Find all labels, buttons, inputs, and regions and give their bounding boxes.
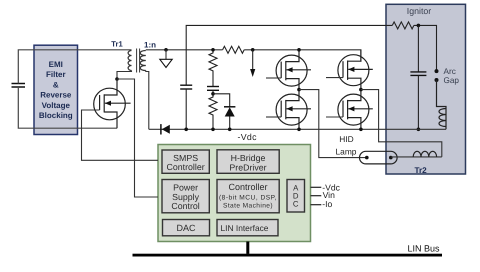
svg-text:Ignitor: Ignitor — [407, 6, 432, 16]
lamp electrode left — [365, 156, 369, 160]
capacitor C3 (snubber) — [207, 87, 219, 91]
current direction arrow — [250, 50, 255, 77]
zener diode D2 — [224, 107, 235, 117]
wire secondary top rail (left part) — [146, 49, 223, 51]
svg-text:Arc: Arc — [444, 67, 456, 76]
svg-text:HID: HID — [339, 134, 353, 144]
svg-text:(8-bit MCU, DSP,: (8-bit MCU, DSP, — [219, 195, 277, 202]
svg-text:C: C — [293, 200, 299, 209]
svg-text:Controller: Controller — [167, 162, 205, 172]
capacitor C2 (ignitor) — [410, 72, 426, 76]
LIN Interface block — [217, 220, 278, 236]
wire Q1 gate to SMPS Controller — [82, 110, 159, 160]
wire C4 bottom to rail — [185, 89, 187, 129]
transistor Q4 (H-bridge bottom-left) — [266, 90, 311, 130]
arc gap electrode top — [435, 69, 439, 73]
junction ignitor RC node — [417, 24, 421, 28]
junction Q2 drain on rail — [297, 48, 301, 52]
wire LIN Interface to bus — [246, 242, 249, 254]
svg-text:Control: Control — [171, 201, 199, 211]
arc gap electrode bottom — [435, 78, 439, 82]
DAC block — [163, 220, 210, 236]
capacitor C4 (bus filter) — [180, 85, 192, 89]
transistor Q2 (H-bridge top-left) — [266, 50, 311, 90]
H-Bridge PreDriver block — [217, 150, 279, 174]
junction Q4 source on rail — [297, 128, 301, 132]
wire snubber mid to zener — [213, 94, 230, 107]
node A junction — [297, 88, 301, 92]
diode D1 (rectifier) — [161, 124, 170, 134]
wire node A to lamp left electrode — [299, 90, 367, 158]
resistor R4 (snubber) — [209, 91, 217, 130]
Power Supply Control block — [162, 180, 209, 213]
junction switching node — [115, 77, 119, 81]
Controller block — [217, 180, 279, 213]
wire bus capacitor top — [185, 50, 187, 85]
wire RC node down — [417, 25, 419, 71]
ignitor module box — [386, 4, 466, 174]
svg-text:Blocking: Blocking — [39, 111, 73, 120]
wire D2 to rail — [229, 117, 231, 130]
resistor R1 — [223, 46, 245, 53]
resistor R3 (snubber) — [209, 50, 217, 86]
wire branch rail to ignitor — [186, 25, 392, 49]
EMI filter block — [34, 45, 78, 134]
resistor R2 (ignitor charging) — [392, 22, 414, 29]
LIN bus line — [133, 254, 443, 257]
wire -Vdc rail — [149, 128, 446, 130]
wire ADC input -Vdc stub — [311, 186, 322, 188]
wire Tr1 primary bottom to switching node — [117, 71, 132, 80]
svg-text:&: & — [53, 80, 59, 89]
svg-text:Tr2: Tr2 — [414, 166, 427, 175]
transformer Tr2 primary winding — [413, 151, 436, 157]
junction C4 on rail — [184, 128, 188, 132]
wire R2 to arc gap top — [414, 25, 437, 71]
wire C1 bottom across EMI block to Q1 source — [18, 87, 117, 128]
node B junction — [359, 88, 363, 92]
junction D2 on rail — [228, 128, 232, 132]
wire lamp right electrode to Tr2 primary — [391, 156, 442, 158]
svg-text:LIN Interface: LIN Interface — [221, 223, 269, 233]
wire ADC input Vin stub — [311, 195, 322, 197]
junction C2 on rail — [417, 128, 421, 132]
wire node B to Tr2 primary right end — [361, 90, 442, 157]
svg-text:Tr1: Tr1 — [111, 40, 123, 49]
svg-text:PreDriver: PreDriver — [229, 162, 266, 172]
HID lamp envelope — [360, 151, 398, 164]
capacitor C1 (input filter) — [12, 84, 26, 88]
junction snubber top — [211, 48, 215, 52]
junction Q5 source on rail — [359, 128, 363, 132]
svg-text:Reverse: Reverse — [40, 91, 72, 100]
svg-text:EMI: EMI — [49, 60, 63, 69]
transistor Q3 (H-bridge top-right) — [326, 50, 373, 90]
svg-text:Gap: Gap — [444, 76, 460, 85]
svg-text:LIN Bus: LIN Bus — [408, 244, 441, 254]
wire top rail to Q3 drain — [244, 50, 361, 62]
svg-text:Filter: Filter — [46, 70, 66, 79]
wire switching node to Power Supply Control input — [117, 79, 158, 197]
controller IC module box — [158, 145, 311, 242]
ADC block — [287, 180, 305, 213]
svg-text:Lamp: Lamp — [336, 147, 357, 157]
wire ADC input -Io stub — [311, 204, 322, 206]
svg-text:Voltage: Voltage — [42, 101, 71, 110]
junction current arrow tap — [251, 48, 255, 52]
wire C1 top across EMI block to Tr1 primary — [18, 50, 131, 84]
transistor Q5 (H-bridge bottom-right) — [326, 90, 373, 130]
svg-text:Controller: Controller — [228, 182, 267, 192]
transistor Q1 (flyback switch) — [94, 79, 131, 128]
svg-text:-Vdc: -Vdc — [238, 132, 258, 142]
ground — [160, 48, 172, 68]
junction snubber mid node — [211, 92, 215, 96]
svg-text:State Machine): State Machine) — [223, 203, 273, 210]
SMPS Controller block — [162, 150, 209, 173]
junction snubber on rail — [211, 128, 215, 132]
transformer Tr2 secondary winding — [437, 80, 447, 129]
svg-text:-Io: -Io — [322, 199, 332, 209]
wire Tr1 secondary bottom to -Vdc rail — [146, 71, 149, 130]
wire C2 bottom to -Vdc rail — [417, 76, 419, 130]
transformer Tr1 — [128, 49, 146, 73]
lamp electrode right — [389, 156, 393, 160]
svg-text:Power: Power — [173, 182, 198, 192]
svg-text:1:n: 1:n — [144, 41, 156, 50]
svg-text:DAC: DAC — [176, 223, 196, 233]
